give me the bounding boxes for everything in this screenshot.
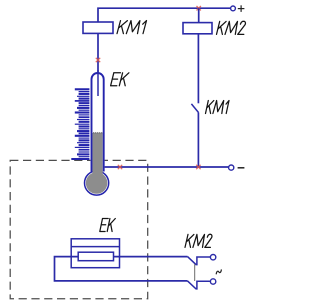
wire: top bus down to KM2 coil — [198, 8, 200, 22]
thermometer scale ticks — [71, 89, 89, 159]
label + — [238, 5, 245, 12]
wire: left loop of heater circuit — [55, 257, 188, 281]
wire: bottom bus from thermometer side to - terminal — [104, 166, 229, 168]
label EK (thermometer) — [111, 73, 129, 86]
wire: KM2 coil down to contact KM1 — [197, 34, 199, 104]
thermometer bulb ring — [85, 171, 109, 195]
thermometer inner electrode wire — [97, 70, 99, 96]
thermometer bulb mercury disc — [86, 172, 108, 194]
label KM1 (contact) — [206, 101, 230, 114]
junction marker (red) at KM2 branch on top bus — [197, 6, 201, 10]
label KM2 (coil) — [217, 21, 246, 34]
relay coil KM1 — [83, 22, 113, 33]
label EK (heater) — [100, 219, 116, 232]
label ~ (AC) — [216, 269, 221, 274]
mercury top dotted line — [93, 132, 102, 133]
terminal - (circle) — [229, 165, 234, 170]
label - — [238, 167, 245, 169]
relay coil KM2 — [183, 23, 212, 34]
wire: heater to KM2 contact (upper) — [114, 256, 188, 258]
wire: KM1 coil down to thermometer top — [97, 33, 99, 74]
contact KM1 (normally open) blade — [191, 104, 198, 113]
heater EK outer case — [71, 239, 119, 268]
wire: top bus from left branch to + terminal — [98, 8, 231, 22]
contact KM2 lower pole blade — [188, 281, 211, 289]
thermometer mercury column — [93, 133, 103, 183]
thermometer EK body fill (covers dashed line) — [84, 73, 110, 196]
contact KM2 upper terminal circle — [210, 255, 215, 260]
connection marker (red) on thermometer top pin — [96, 58, 100, 62]
label KM1 (coil) — [117, 21, 147, 34]
junction marker (red) contact branch on bottom bus — [196, 165, 200, 169]
wire: contact KM1 down to bottom bus — [197, 113, 199, 167]
heater resistor element EK — [78, 252, 113, 261]
mechanical link of KM2 poles — [194, 264, 196, 281]
thermometer tube walls — [92, 73, 104, 172]
dashed enclosure box (controlled object) — [10, 160, 148, 298]
terminal + (circle) — [231, 6, 236, 11]
heater case divider line — [71, 246, 119, 248]
contact KM2 lower terminal circle — [210, 279, 215, 284]
label KM2 (contact) — [185, 234, 212, 247]
junction marker (red) thermometer side pin — [118, 165, 122, 169]
contact KM2 upper pole blade — [188, 257, 211, 265]
